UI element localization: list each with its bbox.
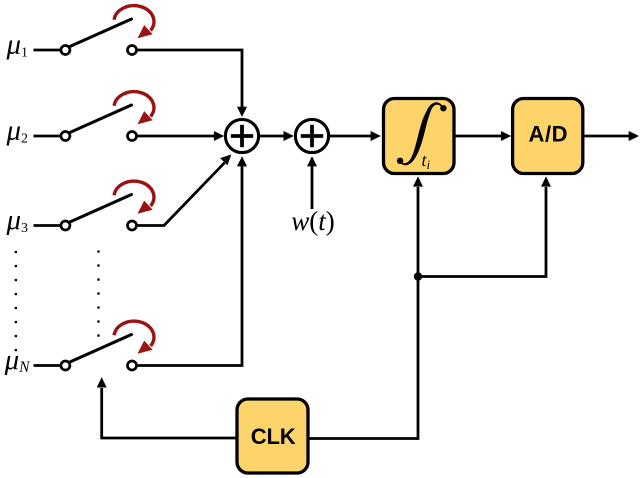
switch S1 — [34, 6, 154, 55]
wire CLK to switch actuation — [97, 377, 237, 438]
summing junction 1 — [225, 119, 258, 152]
CLK block — [237, 399, 308, 473]
wire summer1 to summer2 — [260, 131, 294, 141]
wire mu3 switch diagonal to summer — [137, 155, 232, 226]
ellipsis dots left column — [15, 251, 17, 351]
summing junction 2 — [295, 119, 328, 152]
A/D converter block — [513, 99, 583, 174]
ellipsis dots right column — [97, 250, 99, 336]
wire CLK to integrator trigger — [308, 176, 423, 438]
wire junction to A/D trigger — [418, 176, 551, 276]
svg-text:A/D: A/D — [529, 121, 568, 146]
wire muN switch to summer bottom — [137, 156, 248, 365]
wire integrator to A/D — [454, 131, 511, 141]
wire summer2 to integrator — [330, 131, 381, 141]
junction node — [414, 272, 422, 280]
wire mu2 switch to summer left — [137, 131, 225, 141]
wire mu1 switch to summer top — [137, 50, 248, 117]
switch S2 — [34, 92, 154, 141]
wire A/D output — [583, 131, 639, 141]
integrator block U1 — [384, 99, 455, 174]
svg-text:w(t): w(t) — [291, 206, 335, 236]
switch SN — [34, 321, 154, 370]
wire w(t) to summer2 bottom — [307, 156, 317, 209]
svg-text:CLK: CLK — [251, 424, 296, 449]
switch S3 — [34, 181, 154, 230]
